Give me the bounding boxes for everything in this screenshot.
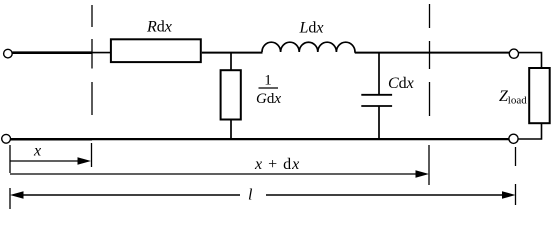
svg-text:Cdx: Cdx [388, 75, 414, 92]
wire bottom rail [92, 138, 509, 140]
svg-text:Gdx: Gdx [256, 91, 281, 107]
label fraction bar [259, 87, 279, 89]
wire terminal to load corner [519, 53, 542, 68]
node dashed section boundary right (x+dx) [429, 4, 431, 116]
dimension line x+dx [10, 173, 418, 175]
dimension line l left part [21, 194, 240, 196]
arrowhead l right [502, 191, 516, 199]
resistor R dx [111, 39, 201, 62]
svg-text:l: l [248, 187, 253, 204]
terminal output bottom [509, 134, 518, 143]
terminal input top [4, 49, 13, 58]
svg-text:x + dx: x + dx [254, 156, 300, 173]
dimension line l right part [266, 194, 504, 196]
conductance element 1/Gdx [221, 70, 241, 119]
svg-text:Rdx: Rdx [146, 19, 172, 36]
capacitor C dx bottom plate [361, 105, 392, 107]
arrowhead x+dx [416, 170, 430, 178]
wire shunt G bottom stub [230, 120, 232, 140]
tick dimension origin lower [9, 188, 11, 209]
wire capacitor top stub [378, 53, 380, 95]
svg-text:Ldx: Ldx [299, 20, 324, 37]
inductor L dx [262, 42, 356, 53]
arrowhead x [78, 157, 92, 165]
wire top-left terminal to boundary [12, 51, 92, 54]
tick dimension origin upper [9, 145, 11, 173]
tick below left boundary [91, 143, 93, 167]
wire boundary to resistor [92, 52, 111, 54]
svg-text:load: load [508, 95, 527, 107]
load impedance Z_load [529, 68, 550, 123]
dimension line x [10, 160, 80, 162]
wire capacitor bottom stub [378, 106, 380, 139]
wire load bottom stub [518, 123, 542, 139]
svg-text:1: 1 [264, 73, 272, 89]
tick below right boundary [428, 145, 430, 185]
wire inductor to right boundary and terminal [355, 52, 509, 54]
wire resistor to inductor [202, 52, 263, 54]
wire shunt G top stub [230, 53, 232, 71]
tick load terminal lower [515, 184, 517, 205]
svg-text:x: x [33, 143, 41, 160]
capacitor C dx top plate [361, 94, 392, 96]
node dashed section boundary left (x) [91, 5, 93, 115]
wire bottom-left terminal to boundary [11, 138, 92, 141]
arrowhead l left [10, 191, 24, 199]
dash below output terminal [515, 147, 517, 166]
terminal output top [509, 49, 518, 58]
terminal input bottom [2, 134, 11, 143]
